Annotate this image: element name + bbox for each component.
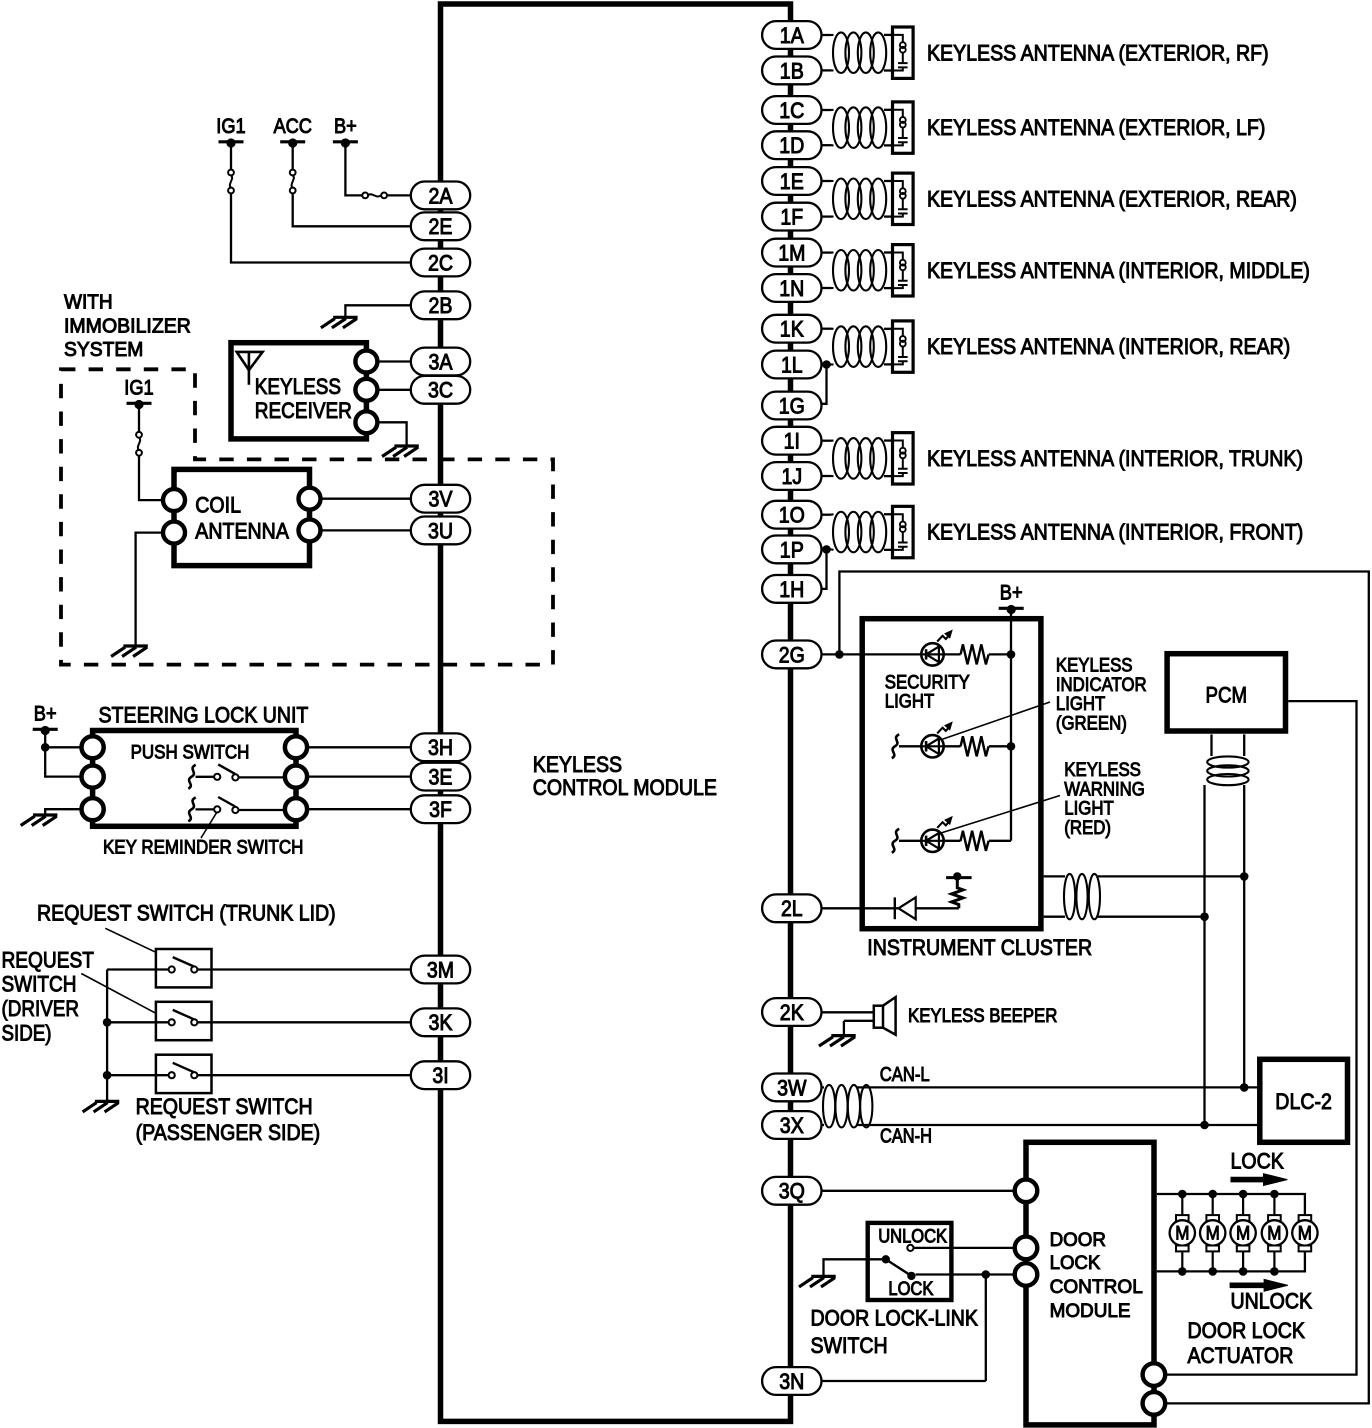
svg-text:KEYLESS ANTENNA (INTERIOR, REA: KEYLESS ANTENNA (INTERIOR, REAR) <box>927 334 1290 359</box>
actuator bottom bus <box>1157 1251 1305 1271</box>
svg-text:UNLOCK: UNLOCK <box>878 1227 947 1248</box>
wire 2B to ground <box>345 305 411 317</box>
wire lock contact to module <box>916 1273 1015 1275</box>
DLC-2 box <box>1260 1059 1348 1142</box>
leader driver request switch <box>81 974 156 1014</box>
svg-text:3H: 3H <box>428 735 453 760</box>
CAN-L line <box>856 1086 1260 1088</box>
svg-text:COIL: COIL <box>195 493 241 518</box>
svg-text:1A: 1A <box>780 23 804 48</box>
connector pin 1K <box>762 315 821 343</box>
label DOOR LOCK-LINK SWITCH <box>811 1306 979 1358</box>
svg-text:3A: 3A <box>429 349 453 374</box>
connector pin 1H <box>762 575 821 603</box>
wire PCM-left down to CAN-H <box>1203 785 1205 1125</box>
svg-text:SECURITY: SECURITY <box>885 672 970 693</box>
svg-text:2G: 2G <box>779 642 805 667</box>
svg-text:2K: 2K <box>780 1000 804 1025</box>
connector pin 3E <box>411 763 470 791</box>
label KEYLESS INDICATOR LIGHT (GREEN) <box>1056 656 1147 735</box>
connector pin 2C <box>411 249 470 277</box>
svg-text:2B: 2B <box>429 293 453 318</box>
connector pin 2A <box>411 182 470 210</box>
wire receiver to ground <box>377 422 406 446</box>
request switch (trunk lid) <box>156 949 212 987</box>
connector pin 2E <box>411 212 470 240</box>
svg-text:STEERING LOCK UNIT: STEERING LOCK UNIT <box>99 703 309 728</box>
svg-text:KEYLESS ANTENNA (INTERIOR, FRO: KEYLESS ANTENNA (INTERIOR, FRONT) <box>927 520 1303 545</box>
svg-text:IG1: IG1 <box>216 115 245 138</box>
push switch <box>188 765 195 789</box>
wire steering lock to ground <box>45 809 82 815</box>
terminal circle unlock <box>1015 1237 1038 1260</box>
svg-text:ACC: ACC <box>273 115 312 138</box>
svg-text:IMMOBILIZER: IMMOBILIZER <box>64 315 191 337</box>
CAN-H line <box>856 1124 1260 1126</box>
connector on immobilizer IG1 wire <box>138 405 140 432</box>
wire twisted pair <box>822 328 832 330</box>
svg-text:INSTRUMENT CLUSTER: INSTRUMENT CLUSTER <box>867 935 1092 960</box>
wire IG1 to coil antenna <box>139 456 163 500</box>
CAN twisted pair <box>823 1085 872 1128</box>
terminal circle 3Q <box>1015 1180 1038 1203</box>
svg-text:3N: 3N <box>779 1369 804 1394</box>
svg-text:1E: 1E <box>780 169 804 194</box>
security light LED <box>921 630 952 665</box>
wire 3W CAN-L <box>822 1086 825 1088</box>
svg-text:ANTENNA: ANTENNA <box>195 519 289 544</box>
steering lock terminal R3 <box>285 798 307 820</box>
svg-text:KEYLESS BEEPER: KEYLESS BEEPER <box>908 1006 1057 1027</box>
connector on B+ wire <box>362 193 387 199</box>
wire PCM right to door lock module <box>1165 701 1357 1375</box>
connector pin 3N <box>762 1367 821 1395</box>
svg-text:M: M <box>1267 1223 1281 1245</box>
coil antenna terminal 2 <box>163 522 185 544</box>
coil antenna terminal 4 <box>299 519 321 541</box>
label DOOR LOCK CONTROL MODULE <box>1050 1229 1143 1322</box>
svg-text:B+: B+ <box>1000 581 1023 604</box>
connector pin 1O <box>762 501 821 529</box>
B+ terminal (instrument cluster) <box>999 581 1024 614</box>
svg-text:3F: 3F <box>429 797 452 822</box>
svg-text:KEYLESS: KEYLESS <box>1056 656 1133 677</box>
svg-text:M: M <box>1298 1223 1312 1245</box>
steering lock terminal L2 <box>82 766 104 788</box>
keyless indicator light LED (green) <box>892 734 899 758</box>
door lock motor M3 <box>1230 1194 1255 1271</box>
keyless antenna unit KEYLESS ANTENNA (INTERIOR, MIDDLE) <box>893 245 914 296</box>
keyless control module box <box>441 4 791 1421</box>
ground (steering lock) <box>21 815 58 826</box>
B+ terminal <box>333 115 358 148</box>
label REQUEST SWITCH (DRIVER SIDE) <box>2 948 95 1046</box>
indicator light resistor <box>944 745 961 747</box>
connector on IG1 wire <box>230 143 232 170</box>
wire cluster CAN pair <box>1044 875 1065 877</box>
PCM box <box>1167 654 1285 731</box>
steering lock terminal L3 <box>82 798 104 820</box>
svg-text:1B: 1B <box>780 58 804 83</box>
svg-text:REQUEST SWITCH: REQUEST SWITCH <box>136 1094 313 1119</box>
keyless antenna unit KEYLESS ANTENNA (INTERIOR, REAR) <box>893 321 914 372</box>
keyless antenna unit KEYLESS ANTENNA (INTERIOR, TRUNK) <box>893 433 914 484</box>
B+ terminal (steering lock) <box>33 702 58 735</box>
svg-text:DOOR LOCK-LINK: DOOR LOCK-LINK <box>811 1306 979 1331</box>
svg-text:2E: 2E <box>429 214 453 239</box>
connector pin 3M <box>411 956 470 984</box>
steering lock terminal L1 <box>82 736 104 758</box>
svg-text:CONTROL MODULE: CONTROL MODULE <box>533 775 717 800</box>
ground (receiver) <box>382 446 419 457</box>
svg-text:WITH: WITH <box>64 292 113 314</box>
IG1 terminal (immobilizer) <box>124 376 153 409</box>
wire passenger switch to 3I <box>107 1074 169 1076</box>
svg-text:CAN-L: CAN-L <box>880 1063 930 1086</box>
svg-text:KEYLESS: KEYLESS <box>533 752 622 777</box>
keyless beeper speaker <box>874 997 896 1035</box>
dashed boundary with immobilizer system <box>61 369 553 664</box>
connector pin 3A <box>411 348 470 376</box>
svg-text:1J: 1J <box>781 464 802 489</box>
svg-text:1L: 1L <box>781 352 803 377</box>
wire ACC to 2E <box>293 194 411 227</box>
svg-text:2L: 2L <box>781 896 803 921</box>
connector pin 1I <box>762 427 821 455</box>
svg-text:REQUEST SWITCH (TRUNK LID): REQUEST SWITCH (TRUNK LID) <box>37 901 336 926</box>
connector pin 3I <box>411 1061 470 1089</box>
wire driver switch to 3K <box>107 1021 169 1023</box>
connector pin 1C <box>762 96 821 124</box>
svg-text:1N: 1N <box>779 276 804 301</box>
wire B+ to connector <box>345 143 362 195</box>
actuator top bus <box>1157 1194 1305 1215</box>
svg-text:RECEIVER: RECEIVER <box>255 398 352 423</box>
svg-text:DLC-2: DLC-2 <box>1275 1089 1332 1114</box>
wire steering lock R1 to 3H <box>307 746 411 748</box>
terminal circle actuator lock <box>1143 1363 1166 1386</box>
wire receiver to 3A <box>377 360 411 362</box>
steering lock unit box <box>93 731 296 827</box>
terminal circle actuator unlock <box>1143 1392 1166 1415</box>
connector pin 2G <box>762 641 821 669</box>
svg-text:WARNING: WARNING <box>1064 779 1145 800</box>
wire B+ branch <box>45 746 82 748</box>
wire 3N <box>822 1380 986 1382</box>
wire twisted pair <box>822 34 832 36</box>
receiver terminal 1 <box>355 351 377 373</box>
svg-text:3W: 3W <box>777 1075 807 1100</box>
connector pin 3W <box>762 1074 821 1102</box>
ground (coil antenna) <box>111 646 148 657</box>
svg-text:3C: 3C <box>428 378 453 403</box>
wire key reminder row to 3F <box>307 808 411 810</box>
ground (request switches) <box>83 1101 120 1112</box>
svg-text:DOOR: DOOR <box>1050 1229 1106 1251</box>
door lock motor M5 <box>1292 1215 1317 1251</box>
svg-text:B+: B+ <box>334 115 357 138</box>
wire twisted pair <box>822 514 832 516</box>
connector pin 1B <box>762 57 821 85</box>
unlock contact <box>907 1245 913 1251</box>
connector pin 3F <box>411 795 470 823</box>
instrument cluster box <box>862 619 1041 929</box>
wire 1L to 1G <box>822 360 831 369</box>
wire unlock contact to module <box>914 1247 1016 1249</box>
label KEYLESS WARNING LIGHT (RED) <box>1064 760 1145 839</box>
wire 3X CAN-H <box>822 1124 825 1126</box>
svg-text:1D: 1D <box>779 133 804 158</box>
leader key reminder switch <box>201 812 217 838</box>
coil antenna terminal 1 <box>163 489 185 511</box>
ground (2B) <box>321 317 358 328</box>
svg-text:M: M <box>1175 1223 1189 1245</box>
antenna symbol <box>237 352 263 385</box>
svg-text:3I: 3I <box>432 1063 448 1088</box>
ground (beeper) <box>819 1036 856 1047</box>
door lock motor M1 <box>1170 1194 1195 1271</box>
connector pin 2K <box>762 998 821 1026</box>
keyless antenna unit KEYLESS ANTENNA (EXTERIOR, RF) <box>893 27 914 78</box>
connector pin 2B <box>411 291 470 319</box>
IG1 terminal <box>216 115 245 148</box>
svg-text:2A: 2A <box>429 183 453 208</box>
svg-text:KEYLESS ANTENNA (EXTERIOR, RF): KEYLESS ANTENNA (EXTERIOR, RF) <box>927 40 1269 65</box>
connector on ACC wire <box>292 143 294 170</box>
svg-text:ACTUATOR: ACTUATOR <box>1188 1343 1294 1368</box>
steering lock terminal R2 <box>285 766 307 788</box>
warning light resistor <box>944 840 961 842</box>
svg-text:LIGHT: LIGHT <box>1056 694 1106 715</box>
connector pin 3V <box>411 485 470 513</box>
svg-text:KEYLESS ANTENNA (INTERIOR, MID: KEYLESS ANTENNA (INTERIOR, MIDDLE) <box>927 258 1310 283</box>
svg-text:1M: 1M <box>778 241 805 266</box>
junction <box>1208 1190 1217 1199</box>
connector pin 1F <box>762 203 821 231</box>
svg-text:KEYLESS: KEYLESS <box>1064 760 1141 781</box>
leader keyless warning light <box>941 796 1060 834</box>
junction <box>1270 1190 1279 1199</box>
security light resistor <box>944 653 961 655</box>
svg-text:LIGHT: LIGHT <box>1064 799 1114 820</box>
svg-text:CONTROL: CONTROL <box>1050 1276 1143 1298</box>
svg-text:IG1: IG1 <box>124 376 153 399</box>
connector pin 1J <box>762 462 821 490</box>
svg-text:1P: 1P <box>780 537 804 562</box>
connector pin 1N <box>762 274 821 302</box>
label COIL ANTENNA <box>195 493 289 544</box>
label KEYLESS RECEIVER <box>255 374 352 423</box>
wire 2K to beeper <box>822 1011 875 1013</box>
label WITH IMMOBILIZER SYSTEM <box>64 292 191 362</box>
svg-text:SWITCH: SWITCH <box>811 1333 888 1358</box>
junction <box>1239 1190 1248 1199</box>
leader trunk request switch <box>105 928 156 952</box>
request switch (driver side) <box>156 1002 212 1040</box>
connector pin 3C <box>411 376 470 404</box>
svg-text:LOCK: LOCK <box>888 1279 933 1300</box>
wire ground to switch pivot <box>824 1259 886 1276</box>
connector pin 1E <box>762 167 821 195</box>
terminal circle lock <box>1015 1263 1038 1286</box>
svg-text:M: M <box>1236 1223 1250 1245</box>
door lock motor M4 <box>1262 1194 1287 1271</box>
svg-text:3X: 3X <box>780 1113 804 1138</box>
keyless antenna unit KEYLESS ANTENNA (EXTERIOR, LF) <box>893 102 914 153</box>
diode (instrument cluster) <box>822 907 899 909</box>
receiver terminal 3 <box>355 411 377 433</box>
svg-text:SYSTEM: SYSTEM <box>64 339 143 361</box>
svg-text:LIGHT: LIGHT <box>885 692 935 713</box>
request switch (passenger side) <box>156 1055 212 1093</box>
keyless antenna unit KEYLESS ANTENNA (INTERIOR, FRONT) <box>893 506 914 557</box>
svg-text:1H: 1H <box>779 577 804 602</box>
steering lock terminal R1 <box>285 736 307 758</box>
wire coil antenna to ground <box>136 533 163 646</box>
connector pin 3X <box>762 1111 821 1139</box>
svg-text:2C: 2C <box>428 250 453 275</box>
svg-text:SIDE): SIDE) <box>2 1020 52 1045</box>
svg-text:CAN-H: CAN-H <box>880 1125 932 1148</box>
svg-text:M: M <box>1206 1223 1220 1245</box>
label KEYLESS CONTROL MODULE <box>533 752 717 800</box>
svg-text:3E: 3E <box>429 765 453 790</box>
coil antenna terminal 3 <box>299 488 321 510</box>
svg-text:DOOR LOCK: DOOR LOCK <box>1188 1318 1306 1343</box>
svg-text:(DRIVER: (DRIVER <box>2 996 80 1021</box>
svg-text:PUSH SWITCH: PUSH SWITCH <box>131 742 250 764</box>
keyless warning light LED (red) <box>892 829 899 853</box>
svg-text:1O: 1O <box>779 503 805 528</box>
svg-text:1G: 1G <box>779 393 805 418</box>
svg-text:KEYLESS: KEYLESS <box>255 374 341 399</box>
wire twisted pair <box>822 251 832 253</box>
wire B+ into cluster <box>1010 609 1012 841</box>
connector pin 1G <box>762 392 821 420</box>
svg-text:1I: 1I <box>784 429 800 454</box>
wire B+ to steering lock <box>45 731 82 777</box>
ACC terminal <box>273 115 312 148</box>
svg-text:UNLOCK: UNLOCK <box>1231 1289 1313 1314</box>
wire twisted pair <box>822 440 832 442</box>
wire twisted pair <box>822 109 832 111</box>
wire 2G to instrument cluster <box>839 653 921 655</box>
svg-text:REQUEST: REQUEST <box>2 948 95 973</box>
resistor (instrument cluster) <box>952 878 963 909</box>
svg-text:LOCK: LOCK <box>1231 1149 1284 1174</box>
label DOOR LOCK ACTUATOR <box>1188 1318 1306 1368</box>
connector pin 1L <box>762 351 821 379</box>
wire connector to 2A <box>387 194 411 196</box>
wire 1P to 1H <box>822 545 831 554</box>
svg-text:3V: 3V <box>429 487 453 512</box>
svg-text:(RED): (RED) <box>1064 818 1111 839</box>
connector pin 1A <box>762 21 821 49</box>
svg-text:KEYLESS ANTENNA (EXTERIOR, REA: KEYLESS ANTENNA (EXTERIOR, REAR) <box>927 186 1297 211</box>
connector pin 3U <box>411 517 470 545</box>
svg-text:KEYLESS ANTENNA (INTERIOR, TRU: KEYLESS ANTENNA (INTERIOR, TRUNK) <box>927 446 1303 471</box>
svg-text:3M: 3M <box>427 957 454 982</box>
svg-text:3K: 3K <box>429 1010 453 1035</box>
svg-text:KEY REMINDER SWITCH: KEY REMINDER SWITCH <box>103 837 303 859</box>
svg-text:SWITCH: SWITCH <box>2 972 77 997</box>
svg-text:(GREEN): (GREEN) <box>1056 714 1127 735</box>
door lock control module box <box>1026 1142 1154 1425</box>
svg-text:3Q: 3Q <box>779 1179 805 1204</box>
svg-text:1C: 1C <box>779 98 804 123</box>
svg-text:1F: 1F <box>780 205 803 230</box>
receiver terminal 2 <box>355 379 377 401</box>
svg-text:LOCK: LOCK <box>1050 1252 1101 1274</box>
junction <box>1178 1190 1187 1199</box>
wire trunk switch to 3M <box>107 968 169 970</box>
connector pin 1P <box>762 536 821 564</box>
ground (door lock-link switch) <box>799 1276 836 1287</box>
wire twisted pair <box>822 180 832 182</box>
wire push switch row to 3E <box>307 775 411 777</box>
wire coil antenna to 3V <box>321 498 412 500</box>
leader keyless indicator light <box>941 702 1050 740</box>
svg-text:1K: 1K <box>780 317 804 342</box>
wire diode to resistor <box>916 907 959 909</box>
svg-text:3U: 3U <box>428 518 453 543</box>
connector pin 3H <box>411 733 470 761</box>
wire IG1 to 2C <box>231 194 411 263</box>
connector pin 1D <box>762 131 821 159</box>
wire coil antenna to 3U <box>321 529 412 531</box>
PCM twisted pair down <box>1210 734 1212 756</box>
label REQUEST SWITCH (PASSENGER SIDE) <box>136 1094 321 1145</box>
request switch ground bus <box>106 970 108 1102</box>
svg-text:MODULE: MODULE <box>1050 1300 1131 1322</box>
coil antenna box <box>174 469 310 565</box>
wire 2G to door lock control module <box>822 572 1369 1404</box>
label UNLOCK + arrow <box>1230 1279 1288 1291</box>
key reminder switch <box>188 797 195 821</box>
wire 3Q to module <box>822 1190 1016 1192</box>
connector pin 3Q <box>762 1177 821 1205</box>
door lock motor M2 <box>1200 1194 1225 1271</box>
svg-text:(PASSENGER SIDE): (PASSENGER SIDE) <box>136 1120 321 1145</box>
svg-text:PCM: PCM <box>1206 683 1248 708</box>
keyless antenna unit KEYLESS ANTENNA (EXTERIOR, REAR) <box>893 173 914 224</box>
door lock-link switch box <box>868 1223 952 1300</box>
keyless receiver box <box>231 343 366 439</box>
connector pin 2L <box>762 894 821 922</box>
svg-text:INDICATOR: INDICATOR <box>1056 675 1147 696</box>
wire PCM-right down to CAN-L <box>1243 785 1245 1087</box>
wire receiver to 3C <box>377 389 411 391</box>
connector pin 3K <box>411 1008 470 1036</box>
label SECURITY LIGHT <box>885 672 970 712</box>
switch lever <box>886 1259 912 1276</box>
connector pin 1M <box>762 239 821 267</box>
svg-text:KEYLESS ANTENNA (EXTERIOR, LF): KEYLESS ANTENNA (EXTERIOR, LF) <box>927 115 1265 140</box>
svg-text:B+: B+ <box>34 702 57 725</box>
